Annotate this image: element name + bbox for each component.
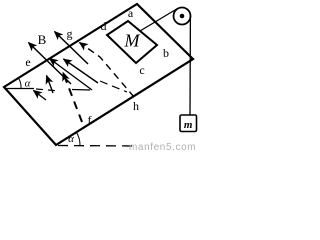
horizontal dashed continuation [36,89,60,91]
svg-text:e: e [25,55,30,69]
mass m box [180,115,197,132]
pulley wheel [174,8,191,25]
svg-text:h: h [133,99,139,113]
field arrow 4 [64,59,99,83]
svg-text:B: B [38,32,47,47]
dashed segment toward bottom edge [100,81,127,92]
vertical string to mass [189,16,191,115]
svg-text:M: M [124,31,141,51]
field arrow g [55,32,89,65]
top angle arc [18,78,21,89]
svg-text:c: c [139,63,144,77]
svg-text:manfen5.com: manfen5.com [129,142,196,153]
svg-text:a: a [128,6,134,20]
svg-text:m: m [184,119,193,131]
block M on incline [107,21,157,63]
pulley axle dot [180,14,185,19]
string from block to pulley [140,9,178,32]
field arrow 5 short [34,91,47,101]
svg-text:b: b [163,46,169,60]
steep thick dashed arrow [63,73,82,123]
svg-text:g: g [67,27,73,41]
field arrow B [29,43,72,85]
svg-text:f: f [88,113,92,127]
svg-text:α: α [25,78,31,90]
dashed arrow parallel [80,43,135,98]
bottom angle arc [76,132,80,145]
horizontal dashed mid segment [72,89,90,92]
steep solid arrow [47,76,54,94]
svg-text:d: d [101,19,107,33]
field arrow 3 [50,59,93,91]
bottom dashed horizontal line [58,145,137,148]
inclined plane outline [4,4,193,145]
svg-text:α: α [68,133,74,145]
top angle horizontal line [4,88,34,90]
